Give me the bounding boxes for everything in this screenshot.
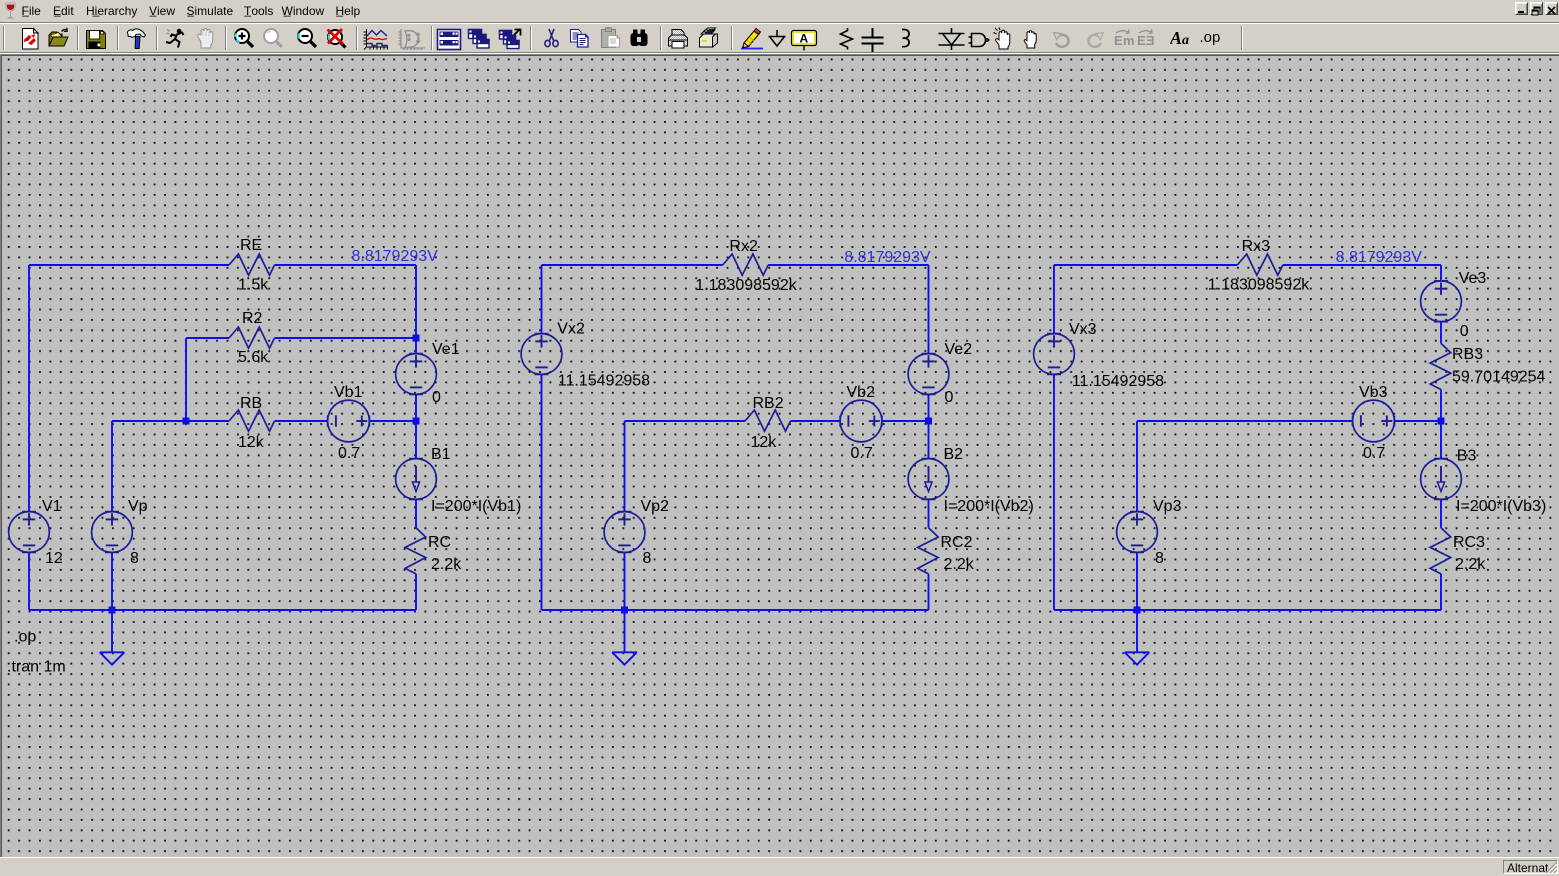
svg-text:Vp: Vp — [128, 498, 148, 515]
svg-text:1.183098592k: 1.183098592k — [695, 277, 797, 294]
wire left rail upper c3 — [1053, 265, 1055, 334]
svg-text:0: 0 — [1460, 323, 1469, 340]
wire right rail junction-B c2 — [928, 421, 930, 459]
svg-text:R2: R2 — [242, 310, 263, 327]
voltage source Vb2 — [840, 400, 882, 442]
wire right rail B-RC c2 — [928, 499, 930, 527]
svg-text:0: 0 — [945, 389, 954, 406]
svg-text:Rx2: Rx2 — [729, 238, 758, 255]
wire right rail junction-B c3 — [1440, 421, 1442, 459]
value 2.2k — [431, 556, 462, 573]
svg-text:0.7: 0.7 — [338, 445, 360, 462]
wire left rail upper c2 — [541, 265, 543, 334]
voltage source Vb1 — [328, 400, 370, 442]
svg-text:.op: .op — [1200, 29, 1221, 46]
svg-text:Ve1: Ve1 — [432, 341, 460, 358]
wire base wire mid c2 — [791, 420, 841, 422]
svg-text:2.2k: 2.2k — [431, 556, 462, 573]
voltage source Ve1 — [396, 354, 437, 395]
label B2 — [944, 446, 964, 463]
value 8 — [643, 550, 652, 567]
value 12 — [45, 550, 63, 567]
behavioral current source B2 — [908, 459, 949, 500]
voltage source Vp2 — [604, 512, 645, 553]
junction node R2-RB — [183, 418, 190, 425]
value 8 — [1155, 550, 1164, 567]
wire right rail junction-B c1 — [415, 421, 417, 459]
label Ve2 — [945, 341, 973, 358]
behavioral current source B3 — [1421, 459, 1462, 500]
svg-text:I=200*I(Vb3): I=200*I(Vb3) — [1456, 498, 1546, 515]
svg-text:Vb1: Vb1 — [334, 384, 363, 401]
value 1.183098592k — [1208, 276, 1310, 293]
svg-text:Vb3: Vb3 — [1359, 384, 1388, 401]
svg-text:11.15492958: 11.15492958 — [558, 372, 650, 389]
wire base wire left c3 — [1137, 420, 1353, 422]
svg-text:E: E — [1146, 33, 1155, 48]
svg-text:1.5k: 1.5k — [238, 276, 269, 293]
label V1 — [42, 498, 62, 515]
label Ve3 — [1459, 270, 1487, 287]
wire left rail upper c1 — [28, 265, 30, 512]
svg-text:Vx2: Vx2 — [557, 320, 585, 337]
label Vx3 — [1069, 321, 1097, 338]
junction node R2-right-rail — [413, 335, 420, 342]
value 2.2k — [1455, 556, 1486, 573]
wire Vp riser lower c1 — [111, 552, 113, 610]
voltage source V1 — [9, 512, 50, 553]
svg-text:1.183098592k: 1.183098592k — [1208, 276, 1310, 293]
svg-text:2.2k: 2.2k — [1455, 556, 1486, 573]
svg-text:I=200*I(Vb2): I=200*I(Vb2) — [944, 498, 1034, 515]
resistor RB (12k) — [229, 410, 275, 431]
svg-text:RB2: RB2 — [753, 395, 784, 412]
junction node base-right 1 — [413, 418, 420, 425]
label Vp3 — [1153, 498, 1182, 515]
value 2.2k — [944, 556, 975, 573]
value 0 — [1460, 323, 1469, 340]
wire ground stem c1 — [111, 610, 113, 652]
svg-text:RC3: RC3 — [1453, 534, 1485, 551]
value 5.6k — [238, 349, 269, 366]
wire ground stem c3 — [1136, 610, 1138, 652]
wire ground stem c2 — [624, 610, 626, 652]
label B1 — [431, 446, 451, 463]
label RC2 — [941, 534, 973, 551]
wire right rail RC-bottom c1 — [415, 574, 417, 610]
ground c2 — [612, 652, 637, 664]
voltage source Vb3 — [1353, 400, 1395, 442]
svg-text:5.6k: 5.6k — [238, 349, 269, 366]
wire bottom rail c1 — [29, 609, 416, 611]
wire right rail top c2 — [928, 265, 930, 354]
svg-text:0.7: 0.7 — [1363, 445, 1385, 462]
svg-text:Ve2: Ve2 — [945, 341, 973, 358]
wire left rail lower c1 — [28, 552, 30, 610]
label RC3 — [1453, 534, 1485, 551]
wire R2 wire right — [275, 337, 417, 339]
svg-text:Vx3: Vx3 — [1069, 321, 1097, 338]
resistor RC3 (2.2k) — [1430, 528, 1451, 574]
label RE — [240, 237, 262, 254]
svg-text:11.15492958: 11.15492958 — [1072, 373, 1164, 390]
label RC — [428, 534, 451, 551]
voltage source Ve3 — [1421, 281, 1462, 322]
label RB — [240, 395, 262, 412]
svg-text:12: 12 — [45, 550, 63, 567]
wire base wire right c3 — [1394, 420, 1441, 422]
svg-text:8.8179293V: 8.8179293V — [1336, 249, 1423, 266]
label Vb1 — [334, 384, 363, 401]
status bar — [0, 857, 1559, 858]
label Rx3 — [1242, 238, 1271, 255]
resistor RC (2.2k) — [405, 528, 426, 574]
value 0 — [945, 389, 954, 406]
wire bottom rail c3 — [1054, 609, 1441, 611]
wire R2 wire left — [186, 337, 229, 339]
svg-text:A: A — [1170, 28, 1182, 48]
readout 8.8179293V — [844, 249, 931, 266]
svg-text:8.8179293V: 8.8179293V — [844, 249, 931, 266]
wire top rail right c3 — [1283, 264, 1441, 266]
wire base wire left c2 — [625, 420, 746, 422]
junction node base-right 3 — [1438, 418, 1445, 425]
wire R2 branch vertical — [185, 338, 187, 421]
ground c3 — [1125, 652, 1150, 664]
wire bottom rail c2 — [542, 609, 929, 611]
wire base wire left c1 — [112, 420, 229, 422]
svg-text:Vp3: Vp3 — [1153, 498, 1182, 515]
value 8 — [130, 550, 139, 567]
wire left rail lower c3 — [1053, 374, 1055, 610]
wire Vp3 riser upper c3 — [1136, 421, 1138, 512]
readout 8.8179293V — [352, 248, 439, 265]
wire Vp riser upper c1 — [111, 421, 113, 512]
wire right rail RC-bottom c2 — [928, 574, 930, 610]
wire right rail top c1 — [415, 265, 417, 354]
wire base wire right c1 — [369, 420, 416, 422]
wire left rail lower c2 — [541, 374, 543, 610]
junction node bottom 3 — [1134, 607, 1141, 614]
voltage source Vp3 — [1117, 512, 1158, 553]
wire top rail left c3 — [1054, 264, 1237, 266]
label Ve1 — [432, 341, 460, 358]
value 0.7 — [1363, 445, 1385, 462]
readout 8.8179293V — [1336, 249, 1423, 266]
svg-text:0.7: 0.7 — [851, 445, 873, 462]
value I=200*I(Vb2) — [944, 498, 1034, 515]
wire right rail ve-rb c3 — [1440, 322, 1442, 344]
svg-text:m: m — [1123, 33, 1134, 48]
wire Vp3 riser lower c3 — [1136, 552, 1138, 610]
label RB3 — [1452, 346, 1483, 363]
voltage source Vx3 — [1034, 334, 1075, 375]
svg-text:2.2k: 2.2k — [944, 556, 975, 573]
label Rx2 — [729, 238, 758, 255]
wire right rail ve-junction c1 — [415, 394, 417, 421]
svg-text:RB: RB — [240, 395, 262, 412]
svg-text:I=200*I(Vb1): I=200*I(Vb1) — [431, 498, 521, 515]
behavioral current source B1 — [396, 459, 437, 500]
wire right rail RC-bottom c3 — [1440, 574, 1442, 610]
value 0.7 — [338, 445, 360, 462]
wire right rail top c3 — [1440, 265, 1442, 281]
wire base wire mid c1 — [275, 420, 328, 422]
svg-text:RC2: RC2 — [941, 534, 973, 551]
label Vb3 — [1359, 384, 1388, 401]
svg-text:Ve3: Ve3 — [1459, 270, 1487, 287]
value 59.70149254 — [1452, 368, 1546, 385]
label Vp — [128, 498, 148, 515]
label Vp2 — [641, 498, 670, 515]
svg-text:.tran 1m: .tran 1m — [7, 658, 66, 675]
svg-text:8.8179293V: 8.8179293V — [352, 248, 439, 265]
value 12k — [238, 434, 265, 451]
label Vx2 — [557, 320, 585, 337]
svg-text:Rx3: Rx3 — [1242, 238, 1271, 255]
wire right rail rb-junction c3 — [1440, 390, 1442, 422]
svg-text:a: a — [1182, 33, 1189, 48]
wire base wire right c2 — [882, 420, 929, 422]
resistor RE (1.5k) — [229, 254, 275, 275]
svg-text:59.70149254: 59.70149254 — [1452, 368, 1546, 385]
junction node base-right 2 — [925, 418, 932, 425]
svg-text:E: E — [1137, 33, 1146, 48]
resistor R2 (5.6k) — [229, 327, 275, 348]
voltage source Ve2 — [908, 354, 949, 395]
wire top rail right c2 — [768, 264, 928, 266]
resistor Rx3 (1.183098592k) — [1237, 254, 1283, 275]
label R2 — [242, 310, 263, 327]
svg-text:RE: RE — [240, 237, 262, 254]
voltage source Vx2 — [521, 334, 562, 375]
svg-text:8: 8 — [643, 550, 652, 567]
voltage source Vp — [92, 512, 133, 553]
svg-text:.op: .op — [14, 628, 36, 645]
directive .tran 1m — [7, 658, 66, 675]
ground c1 — [100, 652, 125, 664]
svg-text:Vb2: Vb2 — [847, 384, 876, 401]
junction node bottom 1 — [109, 607, 116, 614]
resistor Rx2 (1.183098592k) — [723, 254, 769, 275]
svg-text:B1: B1 — [431, 446, 451, 463]
junction node bottom 2 — [621, 607, 628, 614]
wire right rail B-RC c3 — [1440, 499, 1442, 527]
label RB2 — [753, 395, 784, 412]
value 0.7 — [851, 445, 873, 462]
wire top rail right c1 — [275, 264, 417, 266]
value 11.15492958 — [558, 372, 650, 389]
value 1.5k — [238, 276, 269, 293]
label B3 — [1457, 447, 1477, 464]
wire Vp2 riser lower c2 — [624, 552, 626, 610]
directive .op — [14, 628, 36, 645]
svg-text:RB3: RB3 — [1452, 346, 1483, 363]
value I=200*I(Vb1) — [431, 498, 521, 515]
wire right rail B-RC c1 — [415, 499, 417, 527]
value 11.15492958 — [1072, 373, 1164, 390]
svg-text:12k: 12k — [238, 434, 265, 451]
svg-text:A: A — [800, 32, 809, 46]
toolbar — [0, 24, 1559, 52]
wire Vp2 riser upper c2 — [624, 421, 626, 512]
value 0 — [432, 389, 441, 406]
value 12k — [751, 434, 778, 451]
resistor RC2 (2.2k) — [918, 528, 939, 574]
svg-text:RC: RC — [428, 534, 451, 551]
value I=200*I(Vb3) — [1456, 498, 1546, 515]
resistor RB2 (12k) — [745, 410, 791, 431]
svg-text:V1: V1 — [42, 498, 62, 515]
label Vb2 — [847, 384, 876, 401]
wire top rail left c1 — [29, 264, 229, 266]
value 1.183098592k — [695, 277, 797, 294]
window buttons — [1515, 2, 1528, 15]
svg-text:8: 8 — [1155, 550, 1164, 567]
svg-text:B2: B2 — [944, 446, 964, 463]
menu bar — [0, 0, 1559, 22]
svg-text:Vp2: Vp2 — [641, 498, 670, 515]
resistor RB3 (59.70149254) — [1430, 343, 1451, 389]
wire right rail ve-junction c2 — [928, 394, 930, 421]
svg-text:0: 0 — [432, 389, 441, 406]
svg-text:B3: B3 — [1457, 447, 1477, 464]
svg-text:12k: 12k — [751, 434, 778, 451]
svg-text:8: 8 — [130, 550, 139, 567]
wire top rail left c2 — [542, 264, 723, 266]
svg-text:E: E — [1114, 33, 1123, 48]
